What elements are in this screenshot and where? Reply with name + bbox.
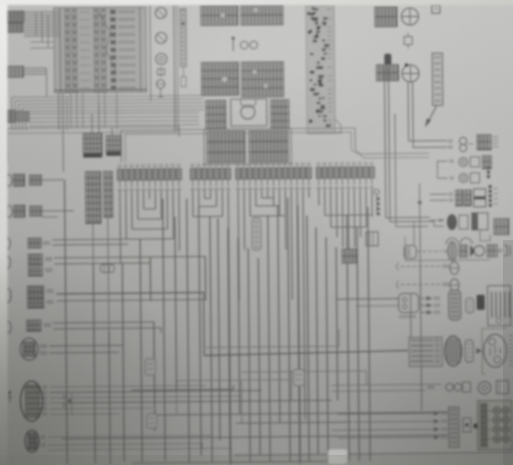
dark terminal blob	[384, 54, 391, 67]
row I side label strip	[509, 336, 513, 365]
comb connector header row	[117, 162, 374, 180]
row I capsule	[465, 340, 473, 362]
second wire from CL5	[57, 299, 206, 300]
row J wires	[331, 384, 441, 385]
row B lamp with housing lower	[459, 174, 468, 183]
wire from CL2	[42, 210, 74, 212]
row D switch box	[472, 213, 488, 230]
oval connector CL7	[20, 338, 46, 360]
inline label capsule mid comb	[252, 218, 261, 250]
row E end block with bracket	[487, 245, 497, 257]
mid right vertical wires	[410, 295, 412, 339]
row A lamp sockets	[449, 137, 473, 151]
row H junction box	[399, 293, 419, 312]
row H dark regulator	[477, 295, 485, 310]
connector block CG5 lower	[206, 100, 226, 128]
diode D1 in relay column	[157, 69, 164, 75]
mesh wire m1	[206, 329, 339, 347]
bottom horizontal wire 3	[154, 412, 448, 415]
vertical wires fuse box to comb	[58, 93, 60, 130]
row C combination switch block	[474, 189, 486, 197]
row I comb block	[409, 337, 442, 366]
row B splice dots	[487, 166, 491, 178]
row I hatched oval connector	[445, 336, 462, 366]
bottom inline label 3	[147, 414, 157, 428]
bottom-left connector CL9	[25, 430, 45, 452]
comb wire drop harness	[119, 178, 376, 465]
connector CL4 cluster	[4, 254, 51, 276]
motor M2 with feed wires	[402, 65, 419, 82]
corner shadows vignette	[0, 150, 320, 465]
bottom inline label 2	[293, 370, 304, 386]
relay column border	[149, 5, 152, 101]
row D wire arcs	[446, 238, 458, 244]
accessory switch block S2	[106, 135, 121, 152]
connector grid CG4 middle	[241, 62, 283, 97]
connector block J3 lower-left cluster	[1, 110, 15, 122]
motor M1 top-right	[401, 8, 418, 25]
fuse box FB1 outline	[54, 7, 147, 93]
legend strip with color codes	[306, 5, 335, 132]
connector block at fuse box input	[4, 11, 24, 22]
relay box R2 mid right of comb	[366, 232, 378, 246]
connector CL5 cluster dark	[4, 286, 52, 308]
row F dashed wire	[396, 263, 398, 271]
connector grid CG1 top	[201, 5, 238, 25]
small inline connector under CR1	[404, 36, 412, 44]
row B connector hatch	[482, 156, 491, 169]
label strip pointer	[182, 67, 184, 77]
row C wires	[430, 193, 448, 195]
row D connector block right	[494, 219, 509, 235]
row C connector pair	[456, 190, 463, 206]
wires from CL9	[48, 435, 212, 437]
row I instrument oval	[482, 329, 506, 374]
row K inline component	[463, 418, 471, 432]
lamp L1	[155, 7, 166, 18]
white reflection patch	[328, 449, 347, 464]
wires from CL3	[52, 238, 140, 241]
ground splice column	[374, 189, 380, 215]
bottom horizontal wire 5	[62, 435, 448, 439]
row D wires	[430, 219, 444, 221]
multi-pin oval connector CL8	[20, 381, 46, 421]
wires above ignition switch	[91, 114, 93, 134]
connector block CR1 top-right	[375, 7, 397, 27]
connector CL3 with stub wires	[4, 237, 49, 248]
ground lug G1	[9, 392, 11, 402]
connector grid CG2 top	[241, 5, 283, 25]
wires from CL4	[54, 256, 205, 301]
connector grid CG3 middle	[201, 62, 238, 95]
row I feed wire dark	[204, 351, 408, 356]
row K fuse panel grid	[473, 401, 512, 450]
row E wire with ticks	[416, 250, 442, 252]
row J end block	[496, 381, 508, 394]
terminal mark under lamp L4	[160, 89, 162, 97]
connector block J2 left edge	[1, 66, 23, 77]
vertical harness wires from motor M2	[407, 83, 410, 141]
lamp L3	[156, 53, 167, 64]
row B bracket wire	[437, 161, 447, 178]
row B lamp with housing upper	[459, 158, 468, 167]
ignition switch block S1	[83, 133, 102, 153]
wires from connector J3	[29, 113, 199, 115]
wires from CL7	[49, 344, 123, 347]
bottom corner turn wires	[176, 391, 178, 415]
row E junction capsule	[404, 245, 416, 258]
junction wires turning right to component rows	[386, 216, 430, 218]
wire from CL1	[41, 179, 63, 181]
row H relay box with bars	[488, 286, 511, 326]
vertical harness wires pair to lower rows	[384, 67, 385, 218]
wires exiting comb loop to right	[351, 149, 429, 154]
inline connector capsule on wire	[100, 264, 114, 272]
row K wires with arrows	[332, 411, 447, 440]
connector grid CG7	[204, 129, 291, 165]
bottom horizontal wire 1	[131, 385, 233, 390]
staircase join wires	[126, 197, 372, 239]
bottom horizontal wire 7	[132, 461, 342, 463]
main feed wire from CL5	[57, 293, 205, 357]
mesh wire m2	[241, 371, 366, 386]
row J socket pair	[446, 383, 454, 391]
row K vertical connector strip	[449, 407, 459, 447]
splice cluster S9	[64, 394, 72, 414]
connector block CG6 lower right	[271, 100, 289, 128]
lower right box outline	[405, 236, 490, 261]
row F lamp socket	[450, 262, 459, 274]
wires from CL6	[53, 321, 154, 324]
row E tall capsule connector	[448, 242, 457, 261]
wire loop bus under fuse box	[12, 95, 204, 130]
row J double circle	[478, 382, 491, 395]
lamp L2	[156, 32, 167, 43]
wire drops from left stacks	[92, 224, 94, 264]
comb header left stack column B	[103, 171, 112, 217]
row H feed wire	[336, 298, 399, 301]
fuse rows in fuse box FB1	[54, 9, 147, 93]
row G dashed wire	[396, 281, 398, 289]
connector pair CL2	[5, 205, 42, 217]
row H small capsule	[466, 298, 474, 313]
wire loop rectangle around comb header	[121, 128, 355, 162]
mesh wire m3	[176, 380, 291, 381]
vertical label strip near relay column	[180, 9, 187, 67]
wire loop rectangle around ignition area	[7, 127, 179, 163]
resistor block W1	[432, 4, 440, 13]
row H capsule connector	[449, 290, 461, 320]
bottom horizontal wire 4	[236, 422, 352, 423]
wires from connector J2	[23, 67, 46, 69]
wires from connector to fuse box FB1	[24, 11, 60, 13]
bottom inline label	[145, 359, 155, 375]
row A connector block	[477, 135, 491, 150]
connector pair CL1	[5, 174, 42, 186]
connector CL6	[5, 320, 50, 333]
wires from multi-pin connector CL8	[49, 385, 206, 387]
row E dark wedge and circle	[470, 245, 475, 257]
connector block bottom of comb	[342, 249, 357, 263]
connector grid CG8	[249, 131, 288, 162]
fusible link symbols between grids	[232, 38, 234, 51]
bottom horizontal wire 6	[234, 453, 513, 456]
row H wires with arrows	[420, 296, 440, 315]
connector block CR2	[376, 65, 398, 81]
long harness verticals to bottom	[64, 177, 370, 465]
row C splice dots	[488, 185, 497, 207]
legend strip foot bracket	[307, 119, 341, 133]
row D loop wire down	[480, 230, 490, 241]
callout label box with arrow	[432, 53, 442, 105]
bottom horizontal wire 2	[62, 400, 332, 403]
row D dark motor	[447, 214, 457, 230]
comb header left stack column A	[85, 171, 100, 223]
row I arrow	[476, 348, 482, 354]
horn relay symbol	[231, 99, 267, 126]
lamp L4	[156, 80, 164, 88]
row G lamp socket	[450, 279, 459, 291]
